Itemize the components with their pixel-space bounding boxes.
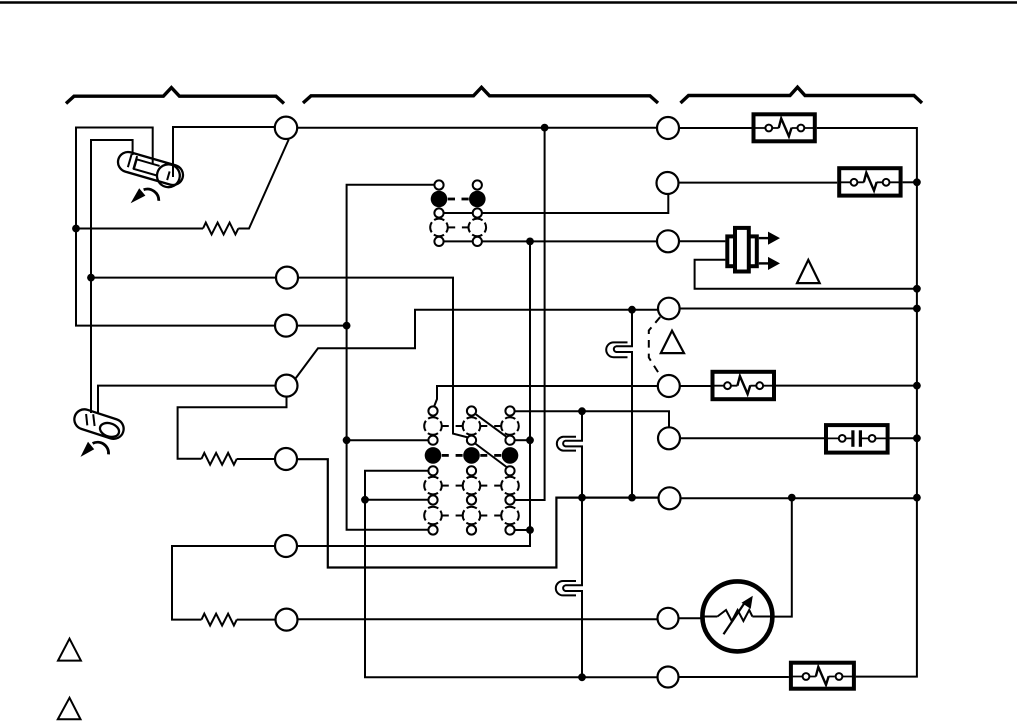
relay K2 contact column 1 (424, 406, 442, 534)
wire: terminal L2 left stub (91, 277, 276, 279)
junction dot at bus / F2 (913, 178, 921, 186)
junction dot at left bus / resistor R1 line (72, 225, 80, 233)
wire: riser x=582 lower part (581, 591, 583, 677)
junction dot at row3 / riser x=530 (526, 238, 534, 246)
wire: plug connector lower lead to right bus (695, 260, 917, 289)
wire: relay K2 row A column1 feed to terminal R5 line (434, 386, 658, 407)
relay K2 actuator diagonal 2 (475, 443, 508, 468)
terminal R4 (658, 298, 680, 320)
junction dot at row G / riser x=365 (361, 496, 369, 504)
wire: terminal R1 to fuse link F1 (679, 127, 751, 129)
junction dot at bus / plug lower lead (913, 285, 921, 293)
warning triangle note 1 (right of plug) (797, 260, 820, 283)
terminal L6 (275, 535, 297, 557)
wire: terminal R5 to fuse link F3 (680, 385, 711, 387)
relay K2 dashed links between columns (442, 426, 501, 516)
junction dot at row A / riser x=582 (578, 407, 586, 415)
junction dot at bus / F3 line (913, 382, 921, 390)
brace: right section (power) (681, 87, 923, 103)
junction dot at L3 line / riser x=346 (343, 322, 351, 330)
junction dot at R1 line / riser x=544 (541, 124, 549, 132)
wire: stub to relay K2 row G column 1 (365, 499, 429, 501)
relay K2 actuator diagonal 1 (475, 413, 508, 437)
wire: terminal L6 to node x=530 riser (297, 241, 530, 546)
wire: terminal R7 to right bus (680, 497, 917, 499)
wire: terminal L2 to relay K2 column 2 (298, 278, 468, 438)
motor M1 (variable speed) (702, 581, 772, 651)
junction dot at R7 line / motor riser (788, 494, 796, 502)
wire: resistor R3 to terminal L7 (237, 619, 276, 621)
wire: relay K2 row E/G feed down to terminal R9 line (365, 471, 658, 678)
wire: terminal L5 loop to terminal R7 (297, 459, 658, 567)
terminal R7 (659, 487, 681, 509)
relay K2 contact column 3 (501, 406, 519, 534)
fuse link F1 (754, 114, 815, 141)
wire: right bus from F1 down to fuse link F5 (817, 128, 917, 677)
wire: relay K1 coil feed from node at x=346 (347, 185, 435, 530)
wire: terminal R3 to plug connector (679, 240, 725, 242)
fuse link F3 (713, 372, 775, 399)
wire: relay K1 row 2 between columns (444, 212, 473, 214)
terminal R2 (657, 172, 679, 194)
junction dot at L2 line / riser x=91 (87, 274, 95, 282)
wire: fuse link F2 to right bus (903, 181, 917, 183)
fuse link F5 (791, 663, 854, 689)
junction dot at bus / capacitor line (913, 434, 921, 442)
rotation arrow for switch S1 (131, 188, 159, 203)
terminal L1 (275, 117, 297, 139)
wire: relay K2 row I column 3 stub (515, 529, 530, 531)
wire: resistor R2 to terminal L5 (237, 458, 275, 460)
terminal R6 (658, 427, 680, 449)
junction dot at R4 line / riser x=632 (628, 306, 636, 314)
rotation arrow for switch S2 (81, 442, 109, 457)
wire: relay K1 row 2 to terminal R2 (482, 194, 668, 213)
terminal L3 (275, 315, 297, 337)
wire: dashed link terminal R4 to R5 (649, 317, 661, 377)
wire: relay K1 row 3 to terminal R3 (482, 240, 657, 242)
terminal R8 (658, 608, 679, 629)
junction dot at row C / riser x=530 (526, 436, 534, 444)
wire: terminal L1 to terminal R1 (297, 127, 657, 129)
inline connector P2 (lamp symbol) (557, 437, 583, 451)
wire: relay K2 row C column 3 stub (515, 439, 530, 441)
wire: relay K2 row A column 3 to terminal R6 (515, 411, 669, 427)
wire: riser x=582 upper part (581, 411, 583, 441)
warning triangle note 3 (legend top) (58, 639, 81, 661)
resistor R2 (202, 453, 237, 465)
wire: resistor R1 to terminal L1 (slanted) (238, 140, 288, 229)
wire: relay K2 row G column 3 riser to R1 line (515, 128, 545, 500)
terminal R3 (657, 230, 679, 252)
terminal L2 (276, 267, 298, 289)
wire: terminal L6 to resistor R3 (172, 546, 275, 620)
plug connector J1 (727, 228, 780, 272)
wire: motor to terminal R7 line riser (772, 498, 791, 617)
wire: switch S1 pin B to left bus and terminal L3 (76, 128, 275, 326)
wire: switch S1 pin A down-left bus into switch S2 (91, 140, 133, 413)
fuse link F2 (839, 168, 900, 195)
terminal R9 (658, 667, 679, 688)
terminal R5 (658, 375, 680, 397)
capacitor box C1 (826, 425, 888, 453)
terminal L5 (275, 448, 297, 470)
junction dot at R7 line / riser x=632 (628, 494, 636, 502)
brace: left section (thermostat) (66, 88, 284, 104)
inline connector P3 (lamp symbol) (556, 581, 583, 595)
wire: terminal R6 to capacitor box (680, 437, 824, 439)
wire: terminal L4 bottom to resistor R2 (178, 397, 287, 459)
junction dot at R9 line / riser x=582 (578, 673, 586, 681)
wire: terminal R4 to right bus (680, 308, 917, 310)
brace: middle section (control) (303, 87, 658, 103)
relay K1 dashed links between columns (448, 199, 469, 227)
wire: terminal R9 to fuse link F5 (678, 676, 789, 678)
junction dot at row I / riser x=530 (526, 526, 534, 534)
switch S2 (mercury bulb thermostat) (72, 407, 126, 442)
wire: terminal L4 to switch S2 (98, 386, 276, 414)
wire: terminal R2 to fuse link F2 (679, 182, 838, 184)
wire: relay K1 row 3 between columns (444, 240, 473, 242)
wire: fuse link F3 to right bus (776, 385, 917, 387)
wire: riser x=632 lower part (631, 352, 633, 498)
terminal L4 (276, 375, 298, 397)
wire: terminal R8 to motor (678, 617, 703, 619)
top page rule (0, 1, 1017, 4)
wire: switch S1 pin C to terminal L1 (173, 127, 275, 177)
terminal R1 (657, 117, 679, 139)
resistor R3 (202, 614, 237, 626)
wire: left bus to resistor R1 (76, 228, 203, 230)
wire: terminal L3 right stub (297, 325, 347, 327)
junction dot at bus / R7 line (913, 494, 921, 502)
junction dot at row C / riser x=346 (343, 436, 351, 444)
inline connector P1 (lamp symbol) (606, 342, 633, 357)
wire: terminal L4 to terminal R4 (step) (296, 310, 659, 379)
junction dot at bus / R4 line (913, 305, 921, 313)
relay K1 contact column 2 (469, 180, 487, 246)
wire: riser x=582 middle part (581, 446, 583, 585)
warning triangle note 4 (legend bottom) (58, 698, 81, 720)
switch S1 (mercury bulb thermostat) (115, 150, 186, 191)
wire: stub to relay K2 row C column 1 (347, 439, 429, 441)
relay K2 contact column 2 (463, 406, 481, 534)
wire: terminal L7 to terminal R8 (297, 618, 657, 620)
wire: capacitor box to right bus (890, 437, 917, 439)
relay K1 contact column 1 (430, 180, 448, 246)
resistor R1 (203, 223, 238, 235)
junction dot at R7 line / riser x=582 (578, 494, 586, 502)
terminal L7 (276, 609, 298, 631)
wire: riser x=632 upper part (631, 310, 633, 347)
warning triangle note 2 (beside dashed link) (661, 331, 684, 353)
